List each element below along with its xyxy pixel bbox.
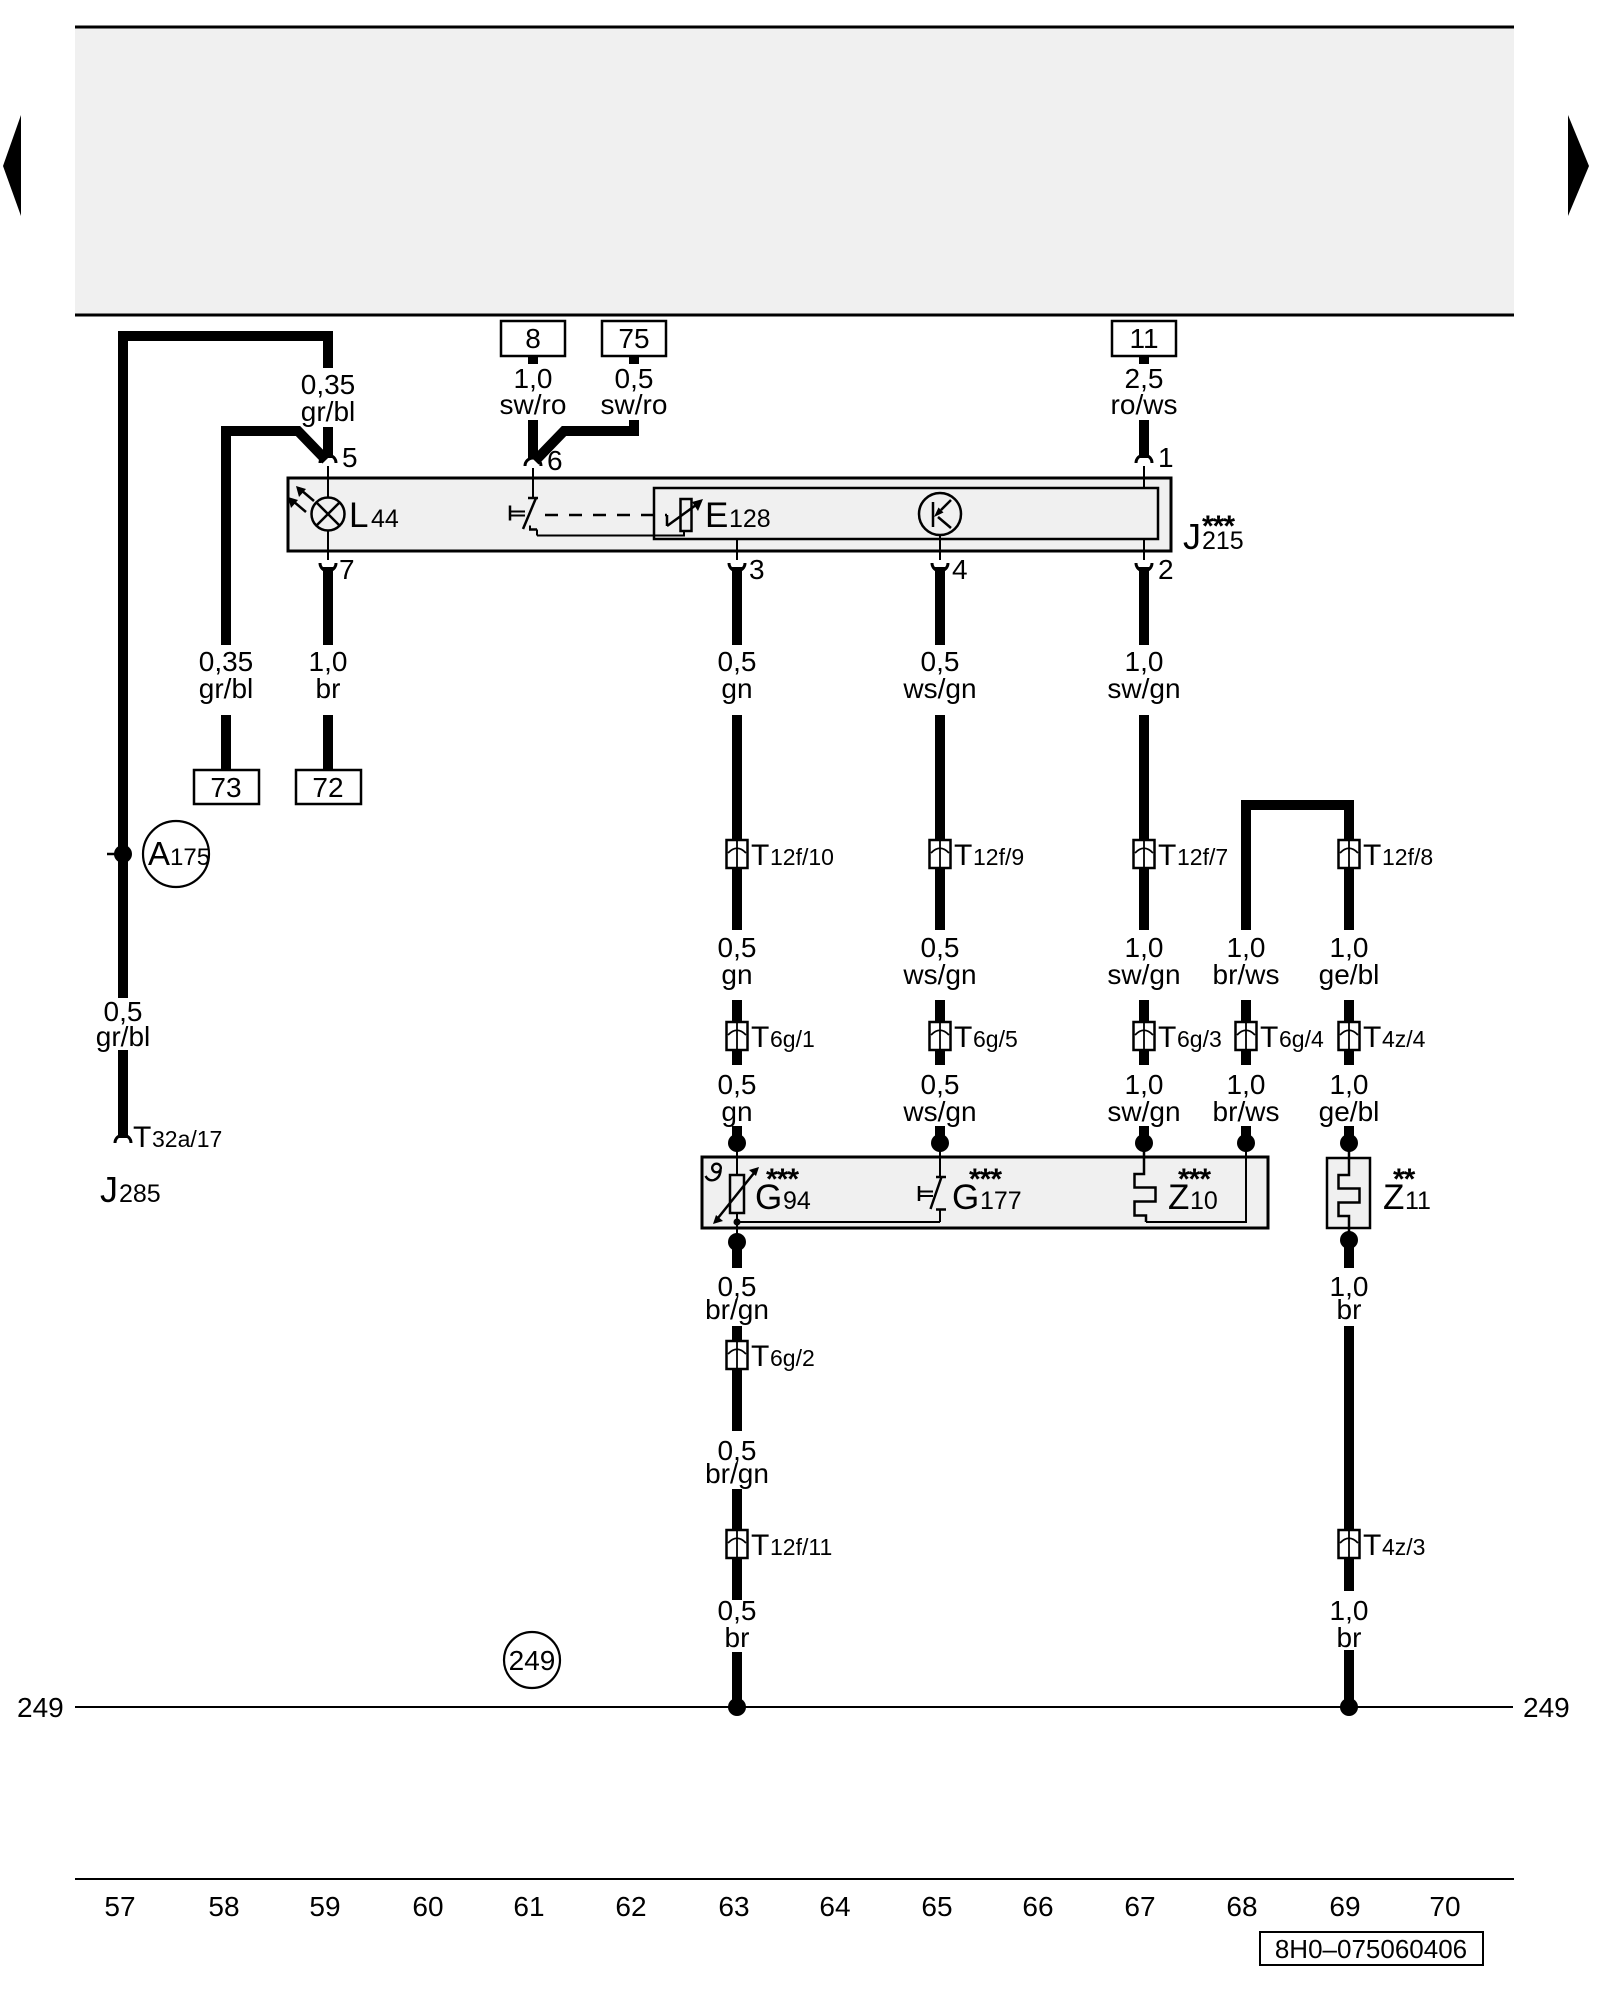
label Z10 [1168,1163,1218,1217]
node dot below G94 [728,1233,746,1251]
wire pin3 internal [736,539,738,560]
label 0,5 gr/bl left column [96,996,150,1052]
svg-text:66: 66 [1022,1891,1053,1922]
svg-text:4: 4 [952,554,968,585]
svg-text:T: T [1158,1021,1176,1054]
label 1,0 br/ws row3 [1213,1069,1280,1127]
wire c5 to ground [732,1652,742,1703]
label 0,35 gr/bl c3 [301,369,356,427]
wire 0,35 gr/bl column c3 upper stub [323,336,333,368]
label 0,5 ws/gn row2 [902,932,976,990]
pin 4 cup [932,563,948,571]
svg-text:67: 67 [1124,1891,1155,1922]
node dot c9 [1340,1134,1358,1152]
svg-text:73: 73 [210,772,241,803]
svg-text:6g/3: 6g/3 [1177,1026,1222,1052]
wire c7 segment3 [1139,1000,1149,1065]
wire c5 below sensor box [732,1247,742,1268]
svg-text:T: T [133,1121,151,1154]
svg-text:62: 62 [615,1891,646,1922]
svg-text:59: 59 [309,1891,340,1922]
E128 arrow [667,499,703,526]
svg-text:12f/9: 12f/9 [973,844,1024,870]
wire pin6 internal [532,468,534,498]
label 1,0 sw/gn row3 [1107,1069,1180,1127]
svg-text:12f/11: 12f/11 [770,1534,832,1560]
svg-text:ws/gn: ws/gn [902,673,976,704]
connector T12f/11 [727,1530,748,1558]
svg-text:gr/bl: gr/bl [199,673,253,704]
switch in J215 [510,498,538,536]
svg-text:T: T [954,839,972,872]
svg-text:gn: gn [721,1096,752,1127]
wire c6 stub to sensor box [935,1126,945,1138]
connector T12f/8 [1339,840,1360,868]
label 0,5 gn row3 [718,1069,757,1127]
box 11 [1112,321,1176,356]
node dot c9 ground [1340,1698,1358,1716]
wire c7 pin2 down [1139,567,1149,645]
wire c2 to box 73 [221,715,231,772]
wire bridge c8-c9 [1246,805,1349,930]
connector T12f/10 [727,840,748,868]
svg-text:64: 64 [819,1891,850,1922]
component J215 control unit box [288,478,1171,551]
pin T32a/17 cup [115,1135,131,1143]
node small dot G94 out [734,1219,741,1226]
label J215 [1183,510,1244,557]
svg-text:***: *** [1202,510,1235,543]
svg-text:***: *** [766,1163,799,1196]
switch G177 [919,1146,946,1222]
svg-text:12f/7: 12f/7 [1177,844,1228,870]
svg-text:gn: gn [721,673,752,704]
wire c9 stub to Z11 [1344,1126,1354,1138]
svg-text:A: A [148,835,170,872]
connector T6g/1 [727,1022,748,1050]
label 1,0 sw/gn row2 [1107,932,1180,990]
pin 5 cup [320,455,336,463]
label 1,0 ge/bl row2 [1319,932,1380,990]
wire stub below box 75 [629,356,639,364]
wire c6 segment3 [935,1000,945,1065]
node A175 tap tick [107,853,119,856]
pin 6 cup [525,458,541,466]
lamp arrows [288,486,314,512]
svg-text:4z/4: 4z/4 [1382,1026,1426,1052]
label T12f/10 [751,839,834,872]
svg-text:T: T [1260,1021,1278,1054]
wire c8 segment3 [1241,1000,1251,1065]
svg-text:**: ** [1393,1163,1416,1196]
box 72 [296,770,361,804]
svg-text:***: *** [969,1163,1002,1196]
svg-text:sw/gn: sw/gn [1107,959,1180,990]
nav arrow left [3,115,21,216]
label 0,5 gn row1 [718,646,757,704]
svg-text:J: J [100,1169,118,1210]
svg-text:32a/17: 32a/17 [152,1126,222,1152]
wire c9 segment5 [1344,1326,1354,1591]
label 2,5 ro/ws [1111,363,1178,420]
wire c3 to box 72 [323,715,333,772]
ruler line [75,1878,1514,1880]
label 0,5 sw/ro [601,363,668,420]
linkage dashed line [545,514,667,517]
svg-text:68: 68 [1226,1891,1257,1922]
heater element Z11 [1339,1146,1360,1240]
node dot c5 [728,1134,746,1152]
wire G177 to G94 internal [737,1221,940,1223]
wire c9 to ground [1344,1650,1354,1703]
box 73 [194,770,259,804]
svg-text:gn: gn [721,959,752,990]
label T12f/7 [1158,839,1228,872]
wire c6 segment2 [935,715,945,930]
wire pin 7 to label [323,567,333,645]
svg-text:61: 61 [513,1891,544,1922]
wire c5 segment5 [732,1326,742,1431]
G94 theta symbol [706,1164,721,1181]
svg-text:75: 75 [618,323,649,354]
connector T6g/3 [1134,1022,1155,1050]
svg-text:11: 11 [1129,323,1158,354]
svg-text:br: br [316,673,341,704]
wire c5 segment2 [732,715,742,930]
svg-text:***: *** [1178,1163,1211,1196]
svg-text:65: 65 [921,1891,952,1922]
ground rail 249 [75,1706,1513,1708]
heater element Z10 [1135,1146,1156,1222]
label G94 [755,1163,811,1217]
svg-text:T: T [954,1021,972,1054]
svg-text:6g/2: 6g/2 [770,1345,815,1371]
node dot c6 [931,1134,949,1152]
svg-text:E: E [705,496,728,535]
svg-text:1: 1 [1158,442,1174,473]
svg-text:ge/bl: ge/bl [1319,1096,1380,1127]
J215 inner box [654,488,1158,539]
svg-text:6g/4: 6g/4 [1279,1026,1324,1052]
wire c5 segment6 [732,1489,742,1600]
label 0,5 br row6 [718,1595,757,1653]
label T4z/3 [1363,1529,1425,1562]
svg-text:249: 249 [1523,1692,1570,1723]
svg-text:58: 58 [208,1891,239,1922]
lamp L44 [312,498,345,531]
label T4z/4 [1363,1021,1426,1054]
wire pin5 internal [327,466,329,498]
label 0,5 br/gn row4 [705,1271,769,1325]
svg-text:7: 7 [339,554,355,585]
connector T12f/9 [930,840,951,868]
svg-text:5: 5 [342,442,358,473]
component A175 circle [143,821,209,887]
label T12f/8 [1363,839,1433,872]
label 0,5 ws/gn row3 [902,1069,976,1127]
wire c2 horizontal run to pin 5 [226,431,326,645]
svg-text:4z/3: 4z/3 [1382,1534,1425,1560]
svg-text:69: 69 [1329,1891,1360,1922]
node dot below Z11 [1340,1231,1358,1249]
pin 7 cup [320,563,336,571]
svg-text:T: T [751,1021,769,1054]
label T6g/1 [751,1021,815,1054]
svg-text:3: 3 [749,554,765,585]
svg-text:70: 70 [1429,1891,1460,1922]
wire box8 to pin 6 [528,420,538,458]
svg-text:57: 57 [104,1891,135,1922]
svg-text:175: 175 [170,844,210,871]
svg-text:sw/gn: sw/gn [1107,1096,1180,1127]
label 0,5 gn row2 [718,932,757,990]
connector T6g/5 [930,1022,951,1050]
wire c5 stub to sensor box [732,1126,742,1138]
svg-text:br: br [1337,1294,1362,1325]
label T6g/3 [1158,1021,1222,1054]
ruler numbers [104,1891,1460,1922]
node dot c5 ground [728,1698,746,1716]
label Z11 [1383,1163,1431,1217]
svg-text:sw/ro: sw/ro [601,389,668,420]
linkage elbow [666,515,669,526]
wire c8 stub to sensor box [1241,1126,1251,1138]
label A175 [148,835,210,872]
sensor group box G94 G177 Z10 [702,1157,1268,1228]
label 0,35 gr/bl c2 [199,646,254,704]
node junction dot on left wire [114,845,132,863]
svg-text:br/ws: br/ws [1213,959,1280,990]
wire box11 to pin 1 [1139,420,1149,458]
wire c7 segment2 [1139,715,1149,930]
svg-text:J: J [1183,516,1201,557]
node dot c8 [1237,1134,1255,1152]
wire pin2 internal [1143,539,1145,560]
label E128 [705,496,771,535]
thermistor G94 [730,1146,744,1242]
pin 2 cup [1136,563,1152,571]
label T6g/4 [1260,1021,1324,1054]
svg-text:6: 6 [547,445,563,476]
svg-text:T: T [751,1529,769,1562]
label 1,0 br/ws row2 [1213,932,1280,990]
wire box75 elbow to pin 6 [535,420,634,461]
label 1,0 br row4 [1330,1271,1369,1325]
svg-text:ws/gn: ws/gn [902,959,976,990]
nav arrow right [1568,115,1589,216]
motor symbol in J215 [919,493,961,535]
label 1,0 ge/bl row3 [1319,1069,1380,1127]
svg-text:br: br [725,1622,750,1653]
svg-text:T: T [751,839,769,872]
node 249 circle [504,1632,560,1688]
svg-text:285: 285 [119,1180,161,1208]
label T12f/9 [954,839,1024,872]
svg-text:249: 249 [17,1692,64,1723]
svg-text:T: T [1363,1529,1381,1562]
wire left column 0,5 gr/bl upper [118,336,128,998]
svg-text:T: T [1158,839,1176,872]
label 0,5 br/gn row5 [705,1435,769,1489]
connector T12f/7 [1134,840,1155,868]
svg-text:gr/bl: gr/bl [301,396,355,427]
svg-text:44: 44 [371,505,399,533]
component Z11 box [1327,1158,1370,1228]
label G177 [952,1163,1022,1217]
wire left column 0,5 gr/bl lower [118,1050,128,1138]
wire c5 pin3 down [732,567,742,645]
wire switch to E128 [537,531,684,536]
wire c9 below Z11 [1344,1245,1354,1268]
svg-text:br: br [1337,1622,1362,1653]
svg-text:12f/10: 12f/10 [770,844,834,870]
wire top run gr/bl [123,336,328,368]
label T32a/17 [133,1121,222,1154]
connector T6g/4 [1236,1022,1257,1050]
svg-text:L: L [349,496,368,535]
wire pin4 internal [939,535,941,560]
svg-text:br/ws: br/ws [1213,1096,1280,1127]
pin 3 cup [729,563,745,571]
part number box [1260,1932,1483,1965]
label T6g/5 [954,1021,1018,1054]
svg-text:ge/bl: ge/bl [1319,959,1380,990]
wire stub below box 11 [1139,356,1149,364]
node dot c7 [1135,1134,1153,1152]
svg-text:gr/bl: gr/bl [96,1021,150,1052]
svg-text:ws/gn: ws/gn [902,1096,976,1127]
label 1,0 br c3 [309,646,348,704]
pin 1 cup [1136,455,1152,463]
svg-text:sw/gn: sw/gn [1107,673,1180,704]
label 1,0 sw/ro [500,363,567,420]
wire c9 segment3 [1344,1000,1354,1065]
G94 arrow [713,1167,759,1224]
svg-text:128: 128 [729,505,771,533]
wire lamp to pin 7 [327,531,329,561]
label L44 [349,496,399,535]
svg-text:sw/ro: sw/ro [500,389,567,420]
svg-text:6g/5: 6g/5 [973,1026,1018,1052]
svg-text:72: 72 [312,772,343,803]
svg-text:2: 2 [1158,554,1174,585]
label 1,0 sw/gn row1 [1107,646,1180,704]
svg-text:T: T [1363,839,1381,872]
wire stub below box 8 [528,356,538,364]
svg-text:60: 60 [412,1891,443,1922]
svg-text:8H0–075060406: 8H0–075060406 [1275,1934,1467,1964]
header gray band [75,27,1514,315]
box 75 [602,321,666,356]
svg-text:br/gn: br/gn [705,1294,769,1325]
wire c3 to pin 5 [323,427,333,458]
svg-text:br/gn: br/gn [705,1458,769,1489]
label J285 [100,1169,161,1210]
label T12f/11 [751,1529,832,1562]
connector T6g/2 [727,1341,748,1369]
wire Z10 return internal [1146,1146,1246,1222]
wire c5 segment3 [732,1000,742,1065]
wire pin1 internal [1143,466,1145,489]
svg-text:T: T [751,1340,769,1373]
label 1,0 br row6 [1330,1595,1369,1653]
svg-text:ro/ws: ro/ws [1111,389,1178,420]
connector T4z/4 [1339,1022,1360,1050]
label 0,5 ws/gn row1 [902,646,976,704]
connector T4z/3 [1339,1530,1360,1558]
svg-text:12f/8: 12f/8 [1382,844,1433,870]
label T6g/2 [751,1340,815,1373]
component E128 rheostat [681,499,692,531]
box 8 [501,321,565,356]
wire c7 stub to sensor box [1139,1126,1149,1138]
svg-text:6g/1: 6g/1 [770,1026,815,1052]
svg-text:T: T [1363,1021,1381,1054]
wire c6 pin4 down [935,567,945,645]
svg-text:8: 8 [525,323,541,354]
svg-text:249: 249 [509,1645,556,1676]
svg-text:63: 63 [718,1891,749,1922]
